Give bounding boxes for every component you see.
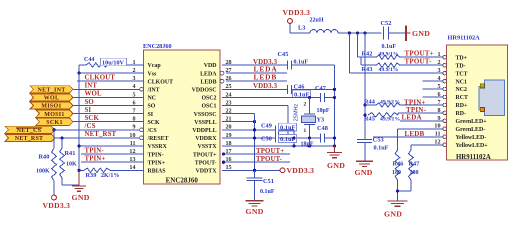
wire pin19 VDDRX to C50 xyxy=(222,137,276,139)
capacitor C45 xyxy=(287,61,289,70)
svg-text:Vss: Vss xyxy=(148,71,158,77)
wire pin27 LEDA stub xyxy=(226,72,287,74)
capacitor C51 xyxy=(247,177,263,179)
svg-text:C49: C49 xyxy=(261,122,272,129)
ENC pin 27 LEDA bubble xyxy=(220,71,224,75)
svg-text:GreenLED+: GreenLED+ xyxy=(456,119,488,125)
ground GND (C51) xyxy=(254,199,256,202)
wire pin16 TPOUT- stub xyxy=(222,161,290,163)
svg-text:GreenLED-: GreenLED- xyxy=(456,127,486,133)
svg-text:10: 10 xyxy=(434,124,440,130)
svg-text:NC: NC xyxy=(148,96,157,102)
svg-text:HR911102A: HR911102A xyxy=(448,35,481,42)
HR pin bubbles xyxy=(443,55,447,59)
junction pin18/x294 xyxy=(292,144,295,147)
svg-text:SCK: SCK xyxy=(85,115,100,122)
wire pin21 VSSPLL xyxy=(222,121,255,123)
svg-text:49.9/1%: 49.9/1% xyxy=(380,99,400,105)
wire pin15 VDDTX to VDD3.3 xyxy=(222,169,280,171)
svg-text:VDD: VDD xyxy=(204,63,217,69)
wire to R44 xyxy=(365,104,376,106)
svg-text:9: 9 xyxy=(437,116,440,122)
ground rail left vertical xyxy=(78,73,80,170)
svg-text:11: 11 xyxy=(435,132,441,138)
svg-text:180: 180 xyxy=(410,170,419,176)
wire crystal bottom row xyxy=(288,137,321,139)
svg-text:R42: R42 xyxy=(362,51,373,58)
svg-text:/CS: /CS xyxy=(84,123,96,130)
wire pin11 VSSRX to rail xyxy=(79,145,144,147)
value box 0.1uF (C50) xyxy=(279,135,297,143)
svg-text:R39: R39 xyxy=(86,172,97,179)
svg-text:2: 2 xyxy=(304,101,307,107)
svg-text:R47: R47 xyxy=(409,160,420,167)
svg-text:VDD3.3: VDD3.3 xyxy=(283,8,311,17)
wire HR pin10 to R46 xyxy=(398,128,443,130)
svg-text:C47: C47 xyxy=(315,85,326,92)
wire L3 to C52 xyxy=(338,32,382,34)
svg-text:C44: C44 xyxy=(84,57,94,63)
wire C50 right to vertical xyxy=(279,137,295,139)
wire R40 bottom to VDD3.3 xyxy=(53,181,55,195)
wire pin6 SO xyxy=(73,105,144,107)
wire C44 left to GND rail corner xyxy=(79,64,86,66)
resistor R39 xyxy=(84,168,110,172)
svg-text:C50: C50 xyxy=(261,135,272,142)
wire C48 to rail xyxy=(325,137,335,139)
wire R46 bottom xyxy=(397,180,399,194)
wire pin9 /CS xyxy=(55,129,140,131)
svg-text:TPIN-: TPIN- xyxy=(85,147,105,154)
svg-text:/INT: /INT xyxy=(147,88,160,94)
wire HR pin12 to R47 xyxy=(411,144,443,146)
ground GND (mid rail) xyxy=(334,146,336,152)
wire R47 bottom loop xyxy=(410,180,412,191)
junction NET_CS/R40 xyxy=(52,128,55,131)
wire R40 top xyxy=(53,130,55,148)
svg-text:VSSRX: VSSRX xyxy=(148,144,168,150)
ENC pin 9 inversion bubble xyxy=(140,128,144,132)
wire pin24 OSC2 to C47 xyxy=(222,96,321,98)
junction C46/rail xyxy=(333,88,336,91)
ENC pin 26 LEDB bubble xyxy=(220,79,224,83)
svg-text:2: 2 xyxy=(437,60,440,66)
wire pin4 /INT xyxy=(73,88,140,90)
wire C46 to rail xyxy=(292,88,335,90)
crystal Y3 body xyxy=(302,116,316,122)
svg-text:TPOUT-: TPOUT- xyxy=(405,58,432,66)
svg-text:INT: INT xyxy=(85,83,98,90)
svg-text:/CS: /CS xyxy=(147,128,158,134)
svg-text:SO: SO xyxy=(148,104,156,110)
resistor R47 xyxy=(409,150,414,180)
svg-text:7: 7 xyxy=(437,100,440,106)
capacitor C53 xyxy=(357,139,372,141)
wire pin13 TPIN+ stub xyxy=(81,161,144,163)
svg-text:GND: GND xyxy=(412,29,430,38)
ground GND (bottom left) xyxy=(78,170,80,186)
svg-text:L3: L3 xyxy=(298,25,305,32)
wire pin25 VDDOSC to C46 xyxy=(222,88,288,90)
svg-text:SI: SI xyxy=(85,107,92,114)
svg-text:2K/1%: 2K/1% xyxy=(101,173,119,179)
capacitor C53 bottom lead xyxy=(364,143,366,161)
svg-text:C53: C53 xyxy=(373,137,385,144)
svg-text:TPOUT+: TPOUT+ xyxy=(405,50,434,58)
svg-text:R45: R45 xyxy=(364,115,375,122)
svg-text:18pF: 18pF xyxy=(317,108,330,114)
svg-text:VDD3.3: VDD3.3 xyxy=(43,201,71,210)
wire R41 top xyxy=(61,138,63,148)
ENC pin 4 inversion bubble xyxy=(140,87,144,91)
junction R45 tap xyxy=(363,113,366,116)
svg-text:SI: SI xyxy=(148,112,154,118)
power port GND bar (top right) xyxy=(405,26,407,41)
junction NET_RST/R41 xyxy=(60,136,63,139)
capacitor C52 xyxy=(383,27,385,40)
power port VDD3.3 (top) circle xyxy=(288,19,293,24)
svg-text:25MHz: 25MHz xyxy=(294,103,300,121)
capacitor C51 top lead xyxy=(254,170,256,178)
svg-text:TPOUT-: TPOUT- xyxy=(256,156,283,163)
vertical wire x365 xyxy=(364,33,366,140)
wire pin1 Vcap to C44 xyxy=(112,64,144,66)
svg-text:C51: C51 xyxy=(263,178,274,185)
wire HR pin11 LEDB xyxy=(373,136,443,138)
junction OSC2/crystal xyxy=(308,96,311,99)
svg-text:RD+: RD+ xyxy=(456,103,469,109)
wire pin18 VSSTX to rail gnd xyxy=(222,145,335,147)
ground GND (LED resistors) xyxy=(397,194,399,201)
wire C49 right then down xyxy=(279,129,295,131)
wire pin3 CLKOUT stub xyxy=(77,80,144,82)
value box 0.1uF (C49) xyxy=(279,123,297,131)
svg-text:/RESET: /RESET xyxy=(147,136,169,142)
svg-text:10u/10V: 10u/10V xyxy=(102,60,125,67)
power port VDD3.3 (bottom left) circle xyxy=(52,195,57,200)
svg-text:VSSTX: VSSTX xyxy=(198,144,218,150)
IC U1 ENC28J60 ethernet controller body xyxy=(144,50,221,184)
svg-text:VDDRX: VDDRX xyxy=(195,136,217,142)
connector HR911102A body xyxy=(447,45,508,160)
junction rail/R39 xyxy=(77,169,80,172)
inductor L3 xyxy=(310,30,338,34)
wire pin8 SCK xyxy=(73,121,144,123)
svg-text:GND: GND xyxy=(384,210,402,219)
port flag MISO1 xyxy=(30,102,73,109)
junction pin16 xyxy=(222,161,225,164)
junction C48/rail xyxy=(333,136,336,139)
wire pin7 SI xyxy=(73,113,144,115)
port flag SCK1 xyxy=(36,118,73,125)
svg-text:ENC28J60: ENC28J60 xyxy=(143,43,172,50)
vertical wire to TCT xyxy=(348,33,350,73)
jack green indicator square xyxy=(480,84,484,88)
junction pin17 xyxy=(222,153,225,156)
svg-text:LEDB: LEDB xyxy=(200,79,216,85)
svg-text:0.1uF: 0.1uF xyxy=(280,125,296,132)
wire rail to R39 xyxy=(79,169,84,171)
junction R46/R47 xyxy=(396,189,399,192)
wire R41 bottom loop to rail xyxy=(61,178,63,185)
svg-text:LEDA: LEDA xyxy=(200,71,217,77)
jack orange indicator square xyxy=(480,107,484,111)
svg-text:SCK: SCK xyxy=(148,120,161,126)
ENC pin 10 inversion bubble xyxy=(140,136,144,140)
svg-text:1: 1 xyxy=(304,128,307,134)
svg-text:NET_CS: NET_CS xyxy=(17,128,42,134)
HR pins 4-6 stubs xyxy=(423,80,443,82)
svg-text:WOL: WOL xyxy=(85,91,102,98)
svg-text:TPOUT+: TPOUT+ xyxy=(256,148,284,155)
svg-text:RD-: RD- xyxy=(456,111,467,117)
svg-text:NC1: NC1 xyxy=(456,79,468,85)
svg-text:TD-: TD- xyxy=(456,63,466,69)
svg-text:R46: R46 xyxy=(393,160,404,167)
svg-text:18pF: 18pF xyxy=(301,142,314,148)
svg-text:SO: SO xyxy=(85,99,95,106)
junction crystal/bottom row xyxy=(308,136,311,139)
svg-text:R41: R41 xyxy=(65,150,76,157)
vertical wire to R43 xyxy=(360,57,362,65)
svg-text:Y3: Y3 xyxy=(317,116,325,123)
svg-text:LEDB: LEDB xyxy=(254,73,278,82)
svg-text:TPIN+: TPIN+ xyxy=(148,160,166,166)
svg-text:22uH: 22uH xyxy=(310,18,324,24)
svg-text:VDD3.3: VDD3.3 xyxy=(253,83,278,90)
vertical wire x254 xyxy=(254,114,256,171)
wire pin12 TPIN- stub xyxy=(81,153,144,155)
junction pin18/rail xyxy=(333,144,336,147)
crystal Y3 top lead xyxy=(309,97,311,114)
svg-text:WOL: WOL xyxy=(44,96,60,102)
crystal Y3 bottom lead xyxy=(309,124,311,138)
wire crystal bottom to pin18 row xyxy=(309,138,311,146)
svg-text:MOSI1: MOSI1 xyxy=(44,112,65,118)
svg-text:MISO1: MISO1 xyxy=(41,104,62,110)
port flag NET_CS xyxy=(5,126,55,133)
svg-text:NET_RST: NET_RST xyxy=(15,136,43,142)
capacitor C44 (zigzag style) xyxy=(86,63,112,67)
RJ45 jack drawing xyxy=(479,80,505,116)
wire pin20 VDDPLL to C49 xyxy=(222,129,276,131)
svg-text:100K: 100K xyxy=(36,169,50,175)
wire pin17 TPOUT+ stub xyxy=(222,153,290,155)
junction top rail b xyxy=(356,31,359,34)
value box 0.1uF (C46) xyxy=(293,90,311,97)
svg-text:R44: R44 xyxy=(364,98,376,105)
wire C47 to rail xyxy=(325,96,335,98)
svg-text:NET_INT: NET_INT xyxy=(37,88,65,94)
wire pin22 VSSOSC xyxy=(222,113,255,115)
wire HR pin9 LEDA xyxy=(400,120,443,122)
vertical wire to R42 xyxy=(357,33,359,57)
wire pin2 Vss to rail xyxy=(79,72,144,74)
ground GND (C53) xyxy=(364,160,366,163)
resistor R40 xyxy=(52,148,57,181)
capacitor C50 xyxy=(275,133,277,142)
wire C52 to GND bar xyxy=(389,32,406,34)
svg-text:180: 180 xyxy=(392,170,401,176)
svg-text:0.1uF: 0.1uF xyxy=(260,189,275,195)
crystal Y3 plates xyxy=(304,113,315,115)
capacitor C47 xyxy=(320,93,322,102)
wire R39 to pin14 RBIAS xyxy=(110,169,144,171)
svg-text:RCT: RCT xyxy=(456,95,469,101)
svg-text:HR911102A: HR911102A xyxy=(456,154,491,161)
svg-text:49.9/1%: 49.9/1% xyxy=(380,116,400,122)
svg-text:GND: GND xyxy=(355,168,373,177)
svg-text:R43: R43 xyxy=(362,66,373,73)
resistor R45 xyxy=(368,113,398,117)
capacitor C49 xyxy=(275,125,277,134)
svg-text:1: 1 xyxy=(437,52,440,58)
value 10u/10V box xyxy=(101,58,127,66)
svg-text:RBIAS: RBIAS xyxy=(148,169,167,175)
svg-text:OSC2: OSC2 xyxy=(201,96,216,102)
svg-text:SCK1: SCK1 xyxy=(46,120,63,126)
svg-text:TPIN-: TPIN- xyxy=(148,152,164,158)
port flag MOSI1 xyxy=(36,110,73,117)
svg-text:VSSOSC: VSSOSC xyxy=(194,112,217,118)
wire pin10 NET_RST xyxy=(55,137,140,139)
capacitor C51 bottom lead xyxy=(254,181,256,201)
svg-text:Vcap: Vcap xyxy=(148,63,162,69)
svg-text:GND: GND xyxy=(327,161,345,170)
svg-text:C48: C48 xyxy=(317,125,328,132)
svg-text:C52: C52 xyxy=(381,20,392,27)
wire C45 to gnd rail corner xyxy=(292,64,335,66)
svg-text:R40: R40 xyxy=(39,154,50,161)
svg-text:VSSPLL: VSSPLL xyxy=(194,120,216,126)
svg-text:TPIN+: TPIN+ xyxy=(85,156,106,163)
power port VDD3.3 (pin15) circle xyxy=(280,168,285,173)
svg-text:VDDTX: VDDTX xyxy=(196,169,218,175)
svg-text:GND: GND xyxy=(246,207,264,216)
svg-text:0.1uF: 0.1uF xyxy=(374,144,389,151)
svg-text:TPOUT+: TPOUT+ xyxy=(193,152,217,158)
wire pin23 OSC1 down xyxy=(222,105,288,107)
resistor R43 xyxy=(376,63,400,67)
capacitor C48 xyxy=(320,134,322,143)
resistor R42 xyxy=(376,55,400,59)
junction C47/rail xyxy=(333,96,336,99)
wire R44 to HR pin7 xyxy=(400,104,443,106)
resistor R41 xyxy=(60,148,65,178)
svg-text:3: 3 xyxy=(437,68,440,74)
wire R42 to HR pin1 xyxy=(400,56,443,58)
junction top rail c xyxy=(363,31,366,34)
wire pin28 VDD to C45 xyxy=(222,64,288,66)
svg-text:10K: 10K xyxy=(66,162,77,168)
resistor R44 xyxy=(376,103,400,107)
junction pin15/C51 xyxy=(253,169,256,172)
junction top rail a xyxy=(348,31,351,34)
svg-text:YellowLED+: YellowLED+ xyxy=(456,143,489,149)
svg-text:VDD3.3: VDD3.3 xyxy=(287,166,315,175)
capacitor C46 xyxy=(287,85,289,94)
svg-text:VDDPLL: VDDPLL xyxy=(192,128,216,134)
junction pin20/vertical xyxy=(253,128,256,131)
wire pin5 xyxy=(73,96,144,98)
svg-text:12: 12 xyxy=(434,140,440,146)
wire R45 jog to HR pin8 xyxy=(397,113,399,115)
svg-text:CLKOUT: CLKOUT xyxy=(85,75,116,82)
svg-text:CLKOUT: CLKOUT xyxy=(148,79,174,85)
junction pin21/vertical xyxy=(253,120,256,123)
junction R44 tap xyxy=(363,103,366,106)
svg-text:LEDA: LEDA xyxy=(402,114,422,122)
junction pin18/x310 xyxy=(308,144,311,147)
port flag NET_RST xyxy=(5,134,55,141)
svg-text:NET_RST: NET_RST xyxy=(85,131,117,138)
svg-text:NC2: NC2 xyxy=(456,87,468,93)
svg-text:VDDOSC: VDDOSC xyxy=(192,88,217,94)
port flag WOL xyxy=(30,94,73,101)
junction rail/pin11 xyxy=(77,144,80,147)
svg-text:0.1uF: 0.1uF xyxy=(382,44,397,50)
svg-text:TD+: TD+ xyxy=(456,55,468,61)
svg-text:OSC1: OSC1 xyxy=(201,104,216,110)
svg-text:49.9/1%: 49.9/1% xyxy=(379,52,399,58)
svg-text:TCT: TCT xyxy=(456,71,468,77)
junction pin19/vertical xyxy=(253,136,256,139)
svg-text:49.9/1%: 49.9/1% xyxy=(379,67,399,73)
wire R43 to HR pin2 xyxy=(400,64,443,66)
svg-text:ENC28J60: ENC28J60 xyxy=(166,177,199,185)
wire pin26 LEDB stub xyxy=(226,80,287,82)
svg-text:8: 8 xyxy=(437,108,440,114)
svg-text:TPOUT-: TPOUT- xyxy=(195,160,217,166)
port flag NET_INT xyxy=(30,86,73,93)
wire VDD3.3 to L3 xyxy=(289,23,291,33)
junction rail/pin2 xyxy=(77,72,80,75)
svg-text:GND: GND xyxy=(72,193,90,202)
svg-text:C45: C45 xyxy=(278,51,289,58)
junction C50/vertical xyxy=(292,136,295,139)
svg-text:LEDB: LEDB xyxy=(405,130,425,138)
resistor R46 xyxy=(395,150,400,180)
svg-text:YellowLED-: YellowLED- xyxy=(456,135,487,141)
